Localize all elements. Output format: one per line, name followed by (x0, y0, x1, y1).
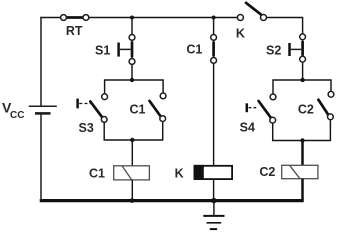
wire S2 branch vertical (302, 17, 304, 80)
switch K (open knife switch) (237, 3, 266, 21)
svg-text:C1: C1 (89, 167, 105, 181)
wire middle branch vertical (213, 18, 215, 166)
pushbutton S1 (119, 35, 135, 65)
svg-text:C2: C2 (298, 102, 314, 116)
svg-text:CC: CC (10, 110, 24, 121)
svg-text:RT: RT (66, 24, 83, 38)
svg-text:S4: S4 (240, 121, 255, 135)
node junction left cell bottom (130, 138, 134, 142)
switch S3 (pushbutton operated contact) (78, 94, 108, 123)
pushbutton S2 (290, 34, 306, 62)
wire C2 coil top bold (301, 141, 304, 166)
node junction bus K ground (211, 198, 216, 203)
contact C2 right cell (relay contact) (318, 91, 334, 119)
wire C2 coil bottom bold (301, 179, 304, 201)
wire left cell top bar (105, 80, 164, 94)
switch RT (closed contact) (61, 15, 89, 21)
wire top left horizontal (40, 17, 240, 19)
svg-text:K: K (175, 167, 184, 181)
wire C1 coil top (131, 140, 133, 166)
node junction S2 to right cell (300, 78, 304, 82)
svg-text:S3: S3 (79, 121, 94, 135)
wire right cell bottom bar (273, 120, 331, 141)
svg-text:C2: C2 (259, 165, 275, 179)
svg-text:C1: C1 (130, 103, 146, 117)
wire left vertical from battery to bottom bus (40, 113, 42, 202)
ground (203, 201, 224, 230)
wire left cell bottom bar (104, 122, 163, 141)
wire S1 branch vertical (131, 18, 133, 81)
svg-text:C1: C1 (186, 43, 202, 57)
svg-text:S2: S2 (266, 43, 281, 57)
contact C1 left cell (relay contact) (150, 93, 167, 122)
wire top right horizontal (264, 17, 303, 19)
node junction bus C1 (130, 198, 135, 203)
wire left vertical from top corner to battery (40, 17, 42, 106)
bottom bus bold (40, 199, 304, 202)
svg-text:S1: S1 (95, 43, 110, 57)
relay coil K (194, 165, 233, 180)
wire C1 coil bottom (131, 180, 133, 201)
wire right cell top bar (273, 80, 331, 94)
node junction S1 to left cell (130, 78, 134, 82)
svg-text:K: K (236, 27, 245, 41)
relay coil C1 (114, 166, 150, 180)
node junction right cell bottom (300, 138, 304, 142)
label VCC (2, 100, 24, 121)
node junction top wire to middle branch (212, 16, 216, 20)
wire K coil bottom (213, 179, 215, 201)
contact C1 middle (closed) (211, 35, 217, 64)
switch S4 (pushbutton operated contact) (247, 94, 276, 123)
relay coil C2 (282, 165, 318, 178)
node junction top wire to S1 branch (130, 16, 134, 20)
battery VCC (29, 106, 57, 113)
